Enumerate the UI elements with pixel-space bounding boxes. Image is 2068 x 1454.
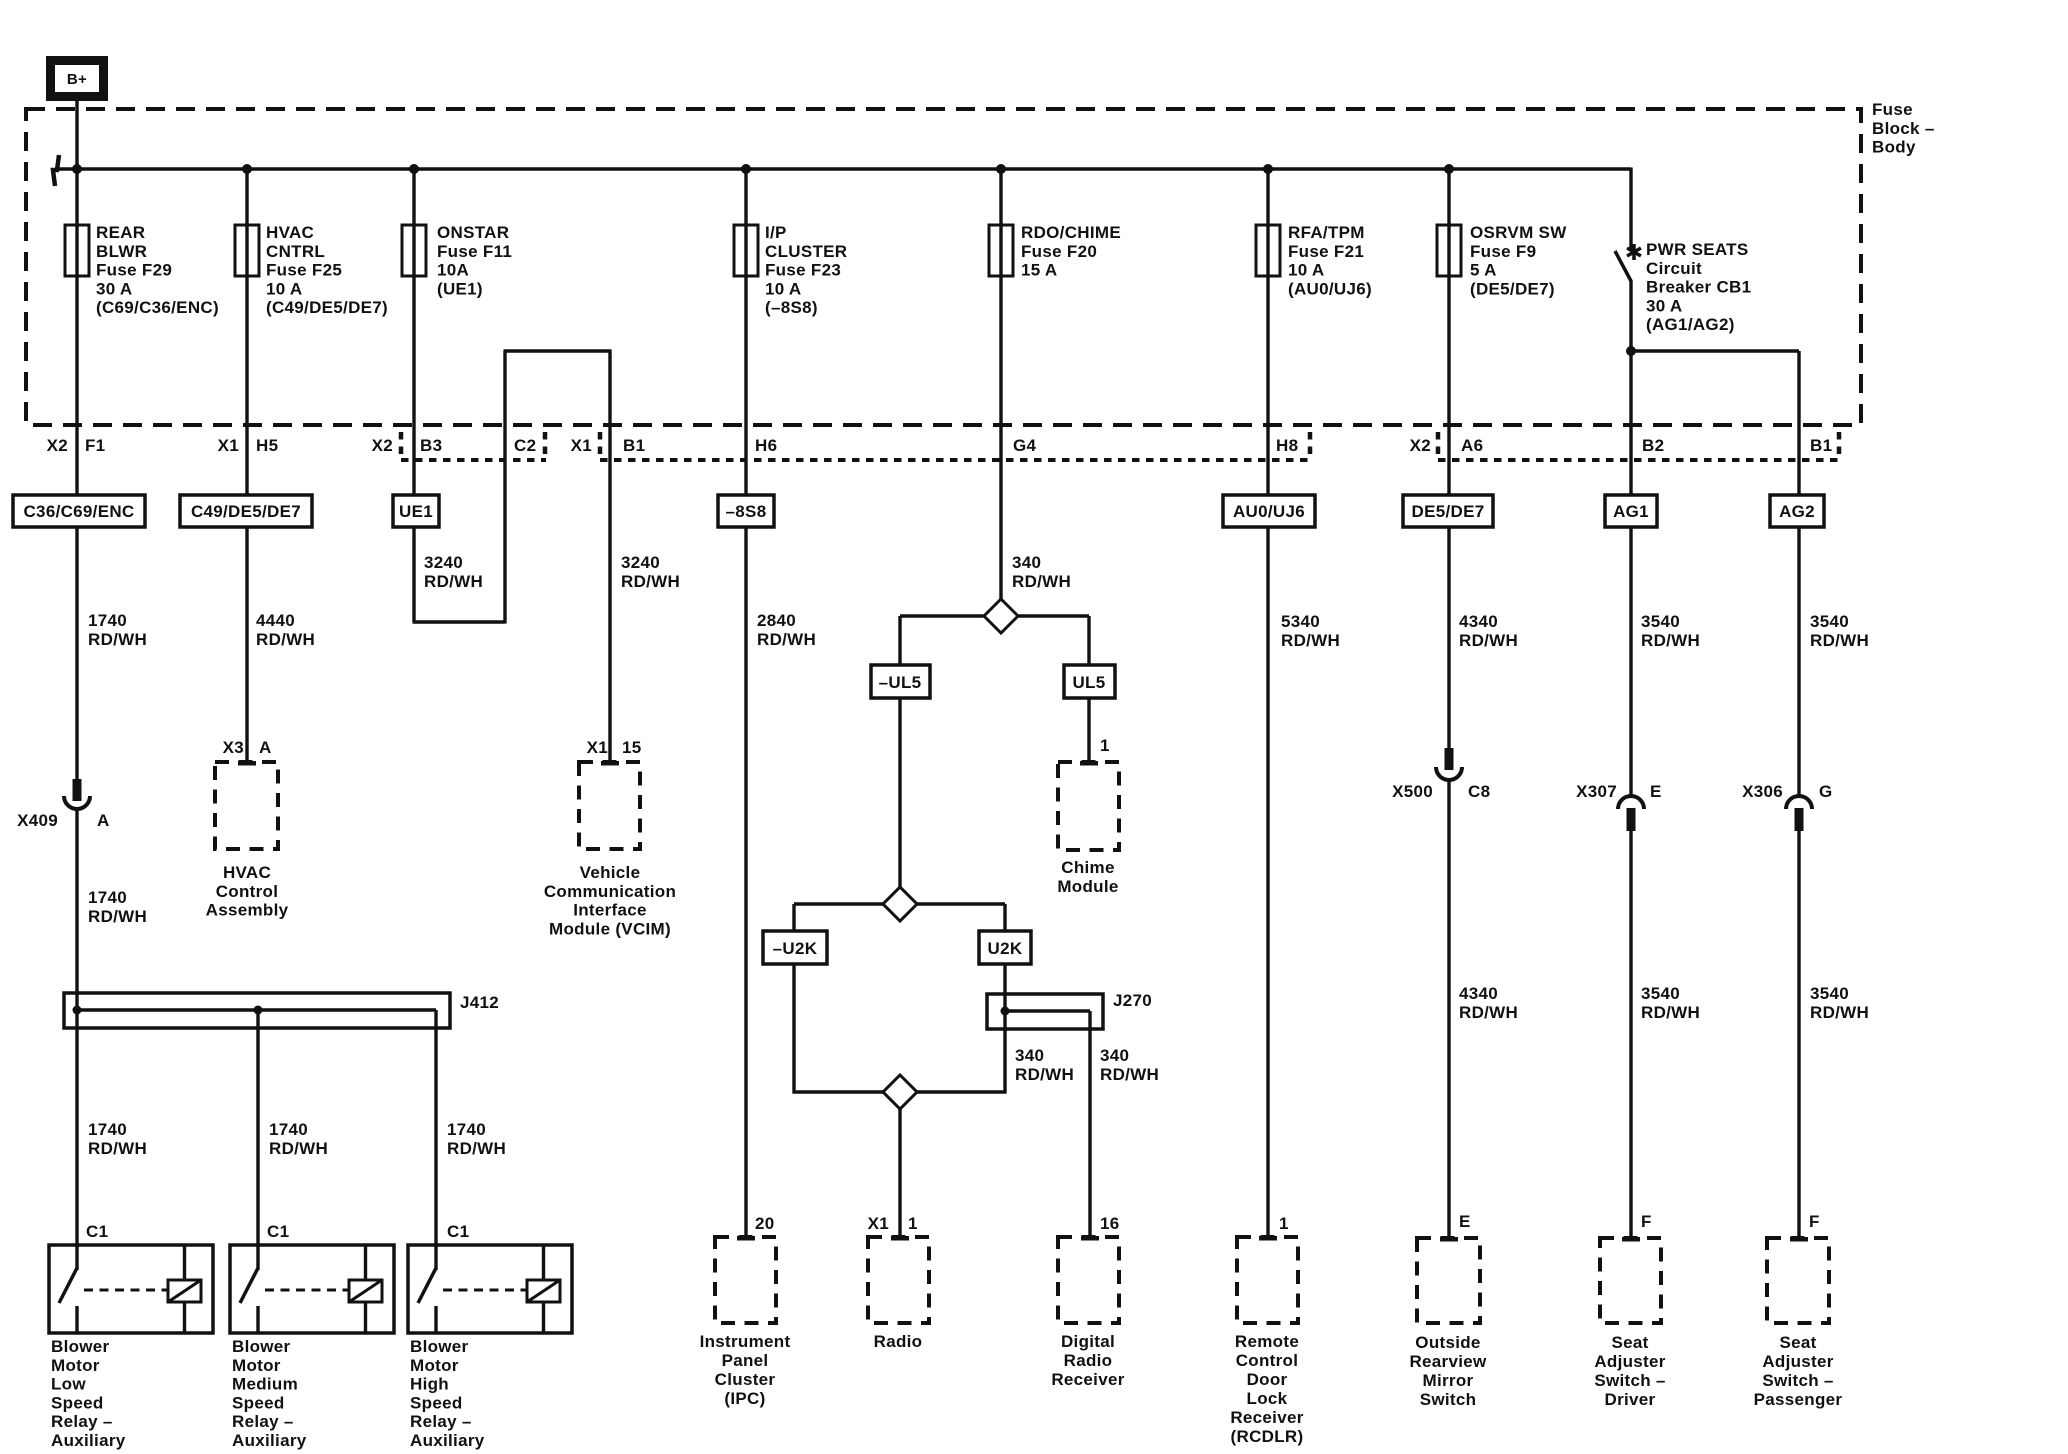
svg-text:Mirror: Mirror: [1423, 1371, 1474, 1390]
svg-text:E: E: [1459, 1212, 1471, 1231]
svg-text:C1: C1: [267, 1222, 289, 1241]
svg-text:RD/WH: RD/WH: [1100, 1065, 1159, 1084]
svg-text:10A: 10A: [437, 261, 469, 280]
module box VCIM: [579, 762, 640, 849]
svg-text:F: F: [1641, 1212, 1652, 1231]
connector box DE5/DE7: [1403, 495, 1493, 527]
svg-text:(IPC): (IPC): [724, 1389, 765, 1408]
label wire 2840 RD/WH: [757, 611, 816, 649]
label fuse F23 I/P CLUSTER: [765, 223, 847, 317]
svg-text:RD/WH: RD/WH: [447, 1139, 506, 1158]
svg-text:Medium: Medium: [232, 1375, 298, 1394]
label wire 1740 RD/WH low speed: [88, 1120, 147, 1158]
svg-text:340: 340: [1015, 1046, 1044, 1065]
connector row dotted separators: [401, 432, 1839, 456]
fuse F25 HVAC CNTRL: [235, 225, 259, 276]
wire S2 left branch: [794, 904, 883, 931]
terminal tick HVAC control: [238, 761, 256, 766]
label wire 3540 RD/WH driver lower: [1641, 984, 1700, 1022]
svg-text:Vehicle: Vehicle: [580, 863, 641, 882]
splice name box -U2K: [763, 931, 827, 964]
svg-text:4340: 4340: [1459, 984, 1498, 1003]
junction dot bus at F11 ONSTAR: [409, 164, 419, 174]
label pin 1 RCDLR: [1279, 1214, 1289, 1233]
wire bus to fuse F29 REAR BLWR: [75, 169, 78, 225]
svg-text:B3: B3: [420, 436, 442, 455]
label wire 1740 RD/WH medium speed: [269, 1120, 328, 1158]
wire 5340 RD/WH: [1266, 527, 1269, 1237]
svg-text:Assembly: Assembly: [206, 901, 289, 920]
svg-text:Radio: Radio: [1064, 1351, 1113, 1370]
wire VCIM drop: [608, 351, 611, 762]
circuit breaker CB1 switch arm: [1615, 251, 1631, 281]
svg-text:Communication: Communication: [544, 882, 676, 901]
label blower motor medium speed relay: [232, 1337, 307, 1450]
svg-text:Instrument: Instrument: [700, 1332, 791, 1351]
svg-text:Passenger: Passenger: [1754, 1390, 1843, 1409]
label X306 G: [1742, 782, 1832, 801]
label pin X1 1 radio: [868, 1214, 918, 1233]
svg-text:X3: X3: [223, 738, 244, 757]
svg-text:Door: Door: [1247, 1370, 1288, 1389]
fuse F9 OSRVM SW: [1437, 225, 1461, 276]
junction dot B+ node: [72, 164, 82, 174]
svg-text:F1: F1: [85, 436, 105, 455]
module box digital radio receiver: [1058, 1237, 1119, 1323]
svg-text:REAR: REAR: [96, 223, 145, 242]
connector box C49/DE5/DE7: [180, 495, 312, 527]
junction dot bus at F21 RFA/TPM: [1263, 164, 1273, 174]
svg-text:X307: X307: [1576, 782, 1617, 801]
wire 3540 RD/WH passenger lower: [1797, 831, 1800, 1238]
wire 3540 RD/WH driver lower: [1629, 831, 1632, 1238]
wire bus corner to CB1: [1629, 168, 1632, 251]
svg-text:Switch –: Switch –: [1594, 1371, 1665, 1390]
terminal tick VCIM: [601, 761, 619, 766]
wire fuse F11 ONSTAR down: [412, 276, 415, 495]
svg-text:(C49/DE5/DE7): (C49/DE5/DE7): [266, 298, 388, 317]
wire fuse F20 RDO/CHIME down: [999, 276, 1002, 495]
label J270: [1113, 991, 1152, 1010]
wire UE1 loop bottom: [413, 620, 506, 623]
label pin 20 IPC: [755, 1214, 775, 1233]
svg-text:10 A: 10 A: [266, 279, 302, 298]
svg-text:(RCDLR): (RCDLR): [1231, 1427, 1304, 1446]
svg-text:4340: 4340: [1459, 612, 1498, 631]
module box radio: [868, 1237, 929, 1323]
svg-text:B1: B1: [623, 436, 645, 455]
svg-text:4440: 4440: [256, 611, 295, 630]
fuse block cavity labels row: [47, 436, 1833, 455]
svg-text:Control: Control: [216, 882, 279, 901]
fuse F11 ONSTAR: [402, 225, 426, 276]
wire S1 right branch: [1018, 616, 1089, 666]
svg-text:Cluster: Cluster: [715, 1370, 776, 1389]
svg-text:RD/WH: RD/WH: [1641, 1003, 1700, 1022]
svg-text:5340: 5340: [1281, 612, 1320, 631]
svg-text:BLWR: BLWR: [96, 242, 147, 261]
wire -UL5 down to S2: [898, 698, 901, 888]
module box remote control door lock receiver: [1237, 1237, 1298, 1323]
junction dot J270: [1001, 1007, 1010, 1016]
svg-text:Seat: Seat: [1611, 1333, 1648, 1352]
terminal tick IPC: [737, 1236, 755, 1241]
label wire 5340 RD/WH: [1281, 612, 1340, 650]
svg-text:3540: 3540: [1641, 612, 1680, 631]
wire S3 to radio: [898, 1109, 901, 1237]
label pin C1 low: [86, 1222, 108, 1241]
svg-text:UL5: UL5: [1072, 673, 1105, 692]
wire 1740 RD/WH X409 to J412: [75, 809, 78, 1270]
connector box AG2: [1770, 495, 1824, 527]
wire CB1 split to AG2 branch: [1631, 351, 1799, 495]
wire jumper C2 to X1 B1: [504, 349, 612, 352]
svg-text:RD/WH: RD/WH: [1459, 1003, 1518, 1022]
relay box blower motor low speed: [49, 1245, 213, 1333]
svg-text:2840: 2840: [757, 611, 796, 630]
wire fuse F23 I/P CLUSTER down: [744, 276, 747, 495]
svg-text:RD/WH: RD/WH: [1281, 631, 1340, 650]
splice name box U2K: [979, 931, 1031, 964]
svg-text:RD/WH: RD/WH: [1641, 631, 1700, 650]
svg-text:Adjuster: Adjuster: [1594, 1352, 1665, 1371]
svg-text:A: A: [97, 811, 110, 830]
svg-text:Fuse F25: Fuse F25: [266, 261, 342, 280]
svg-text:Motor: Motor: [410, 1356, 459, 1375]
label wire 3240 RD/WH left: [424, 553, 483, 591]
svg-text:X1: X1: [218, 436, 239, 455]
circuit breaker CB1 asterisk: [1627, 244, 1641, 260]
label wire 4340 RD/WH lower: [1459, 984, 1518, 1022]
terminal tick seat passenger: [1790, 1237, 1808, 1242]
svg-text:16: 16: [1100, 1214, 1120, 1233]
svg-text:G4: G4: [1013, 436, 1037, 455]
label wire 3540 RD/WH passenger upper: [1810, 612, 1869, 650]
svg-text:3240: 3240: [424, 553, 463, 572]
svg-text:Outside: Outside: [1415, 1333, 1480, 1352]
label wire 340 RD/WH left of J270: [1015, 1046, 1074, 1084]
svg-text:A: A: [259, 738, 272, 757]
label wire 4440 RD/WH: [256, 611, 315, 649]
relay high coil: [527, 1245, 560, 1333]
svg-text:Blower: Blower: [51, 1337, 110, 1356]
svg-text:(DE5/DE7): (DE5/DE7): [1470, 279, 1555, 298]
fuse block - body dashed outline: [26, 109, 1861, 425]
svg-text:Lock: Lock: [1247, 1389, 1288, 1408]
svg-text:3540: 3540: [1810, 984, 1849, 1003]
relay low actuation dashed link: [84, 1289, 168, 1292]
wire J412 to high relay: [434, 1010, 437, 1270]
svg-text:340: 340: [1100, 1046, 1129, 1065]
svg-text:X1: X1: [868, 1214, 889, 1233]
wire fuse F29 REAR BLWR down: [75, 276, 78, 495]
label Remote Control Door Lock Receiver: [1230, 1332, 1303, 1446]
relay high switch arm: [418, 1268, 436, 1333]
svg-text:(AG1/AG2): (AG1/AG2): [1646, 315, 1735, 334]
svg-text:C8: C8: [1468, 782, 1490, 801]
svg-text:–8S8: –8S8: [726, 502, 767, 521]
main bus wire: [55, 167, 1631, 171]
svg-text:Switch: Switch: [1420, 1390, 1477, 1409]
in-line connector X307: [1618, 796, 1644, 831]
module box chime module: [1058, 762, 1119, 850]
svg-text:H6: H6: [755, 436, 777, 455]
wire S2 right branch: [917, 904, 1005, 931]
svg-text:UE1: UE1: [399, 502, 433, 521]
svg-text:RFA/TPM: RFA/TPM: [1288, 223, 1365, 242]
relay box blower motor high speed: [408, 1245, 572, 1333]
label Seat Adjuster Switch Passenger: [1754, 1333, 1843, 1409]
terminal tick seat driver: [1622, 1237, 1640, 1242]
svg-text:Auxiliary: Auxiliary: [232, 1431, 307, 1450]
svg-text:X2: X2: [47, 436, 68, 455]
in-line connector X500: [1436, 748, 1462, 780]
module box seat adjuster switch driver: [1600, 1238, 1661, 1323]
svg-text:Module (VCIM): Module (VCIM): [549, 919, 671, 938]
wire 4340 RD/WH lower: [1447, 780, 1450, 1238]
label wire 1740 RD/WH mid: [88, 888, 147, 926]
svg-text:(UE1): (UE1): [437, 279, 483, 298]
svg-text:1: 1: [1279, 1214, 1289, 1233]
label pin 1 chime: [1100, 736, 1110, 755]
label blower motor low speed relay: [51, 1337, 126, 1450]
svg-text:RD/WH: RD/WH: [256, 630, 315, 649]
relay medium actuation dashed link: [265, 1289, 349, 1292]
svg-text:X500: X500: [1392, 782, 1433, 801]
svg-text:High: High: [410, 1375, 449, 1394]
wire bus to fuse F21 RFA/TPM: [1266, 169, 1269, 225]
connector box AU0/UJ6: [1223, 495, 1315, 527]
svg-text:RD/WH: RD/WH: [88, 1139, 147, 1158]
label Vehicle Communication Interface Module: [544, 863, 676, 938]
svg-text:RD/WH: RD/WH: [269, 1139, 328, 1158]
label Chime Module: [1057, 858, 1118, 896]
svg-text:OSRVM SW: OSRVM SW: [1470, 223, 1567, 242]
svg-text:Fuse F9: Fuse F9: [1470, 242, 1536, 261]
svg-text:CLUSTER: CLUSTER: [765, 242, 847, 261]
wire bus to fuse F20 RDO/CHIME: [999, 169, 1002, 225]
label fuse F21 RFA/TPM: [1288, 223, 1372, 298]
svg-text:C2: C2: [514, 436, 536, 455]
svg-text:RD/WH: RD/WH: [88, 907, 147, 926]
svg-text:1740: 1740: [447, 1120, 486, 1139]
svg-text:RD/WH: RD/WH: [424, 572, 483, 591]
terminal tick chime module: [1080, 761, 1098, 766]
svg-text:C1: C1: [86, 1222, 108, 1241]
label wire 1740 RD/WH high speed: [447, 1120, 506, 1158]
svg-text:U2K: U2K: [988, 939, 1023, 958]
label Outside Rearview Mirror Switch: [1409, 1333, 1487, 1409]
junction dot bus at F9 OSRVM SW: [1444, 164, 1454, 174]
label HVAC Control Assembly: [206, 863, 289, 920]
svg-text:H8: H8: [1276, 436, 1298, 455]
module box outside rearview mirror switch: [1417, 1238, 1480, 1323]
junction dot bus at F23 I/P CLUSTER: [741, 164, 751, 174]
module box HVAC control assembly: [215, 762, 278, 849]
svg-text:AU0/UJ6: AU0/UJ6: [1233, 502, 1305, 521]
splice diamond S3: [883, 1075, 917, 1109]
label Fuse Block - Body: [1872, 100, 1935, 157]
svg-text:Fuse: Fuse: [1872, 100, 1913, 119]
svg-text:Fuse F11: Fuse F11: [437, 242, 512, 261]
power feed B+ box: [46, 56, 108, 101]
wire fuse F9 OSRVM SW down: [1447, 276, 1450, 495]
svg-text:RD/WH: RD/WH: [1459, 631, 1518, 650]
svg-text:C36/C69/ENC: C36/C69/ENC: [23, 502, 134, 521]
wire UE1 loop down: [412, 527, 415, 622]
svg-text:G: G: [1819, 782, 1833, 801]
splice J270 box: [987, 994, 1103, 1029]
label Instrument Panel Cluster: [700, 1332, 791, 1408]
svg-text:1: 1: [1100, 736, 1110, 755]
relay medium coil: [349, 1245, 382, 1333]
svg-text:Chime: Chime: [1061, 858, 1114, 877]
fuse F29 REAR BLWR: [65, 225, 89, 276]
label pin C1 high: [447, 1222, 469, 1241]
svg-text:Adjuster: Adjuster: [1762, 1352, 1833, 1371]
svg-text:DE5/DE7: DE5/DE7: [1412, 502, 1485, 521]
in-line connector X306: [1786, 796, 1812, 831]
wire 1740 RD/WH below C36 connector: [75, 527, 78, 781]
connector box UE1: [393, 495, 439, 527]
wire U2K down through J270: [917, 964, 1007, 1094]
junction dot bus at F20 RDO/CHIME: [996, 164, 1006, 174]
svg-text:H5: H5: [256, 436, 278, 455]
label fuse F9 OSRVM SW: [1470, 223, 1567, 298]
junction dot bus at F25 HVAC CNTRL: [242, 164, 252, 174]
svg-text:Blower: Blower: [232, 1337, 291, 1356]
wire 3540 RD/WH passenger upper: [1797, 527, 1800, 798]
splice diamond S1: [984, 599, 1018, 633]
svg-text:RD/WH: RD/WH: [1810, 1003, 1869, 1022]
svg-text:3540: 3540: [1641, 984, 1680, 1003]
label blower motor high speed relay: [410, 1337, 485, 1450]
svg-text:PWR SEATS: PWR SEATS: [1646, 240, 1749, 259]
svg-text:J270: J270: [1113, 991, 1152, 1010]
wire S1 left branch: [900, 616, 984, 666]
svg-text:Panel: Panel: [722, 1351, 769, 1370]
svg-text:Block –: Block –: [1872, 119, 1935, 138]
terminal tick digital radio receiver: [1081, 1236, 1099, 1241]
svg-text:RD/WH: RD/WH: [1015, 1065, 1074, 1084]
wire -U2K down: [793, 964, 884, 1094]
svg-text:(C69/C36/ENC): (C69/C36/ENC): [96, 298, 219, 317]
wire fuse F21 RFA/TPM down: [1266, 276, 1269, 495]
svg-text:1740: 1740: [88, 888, 127, 907]
wire 4340 RD/WH upper: [1447, 527, 1450, 749]
relay low switch arm: [59, 1268, 77, 1333]
terminal tick RCDLR: [1259, 1236, 1277, 1241]
svg-text:J412: J412: [460, 993, 499, 1012]
svg-text:–U2K: –U2K: [773, 939, 818, 958]
label circuit breaker CB1: [1646, 240, 1751, 334]
label Radio: [874, 1332, 923, 1351]
label X307 E: [1576, 782, 1662, 801]
wire J412 to medium relay: [256, 1010, 259, 1270]
wire bus to fuse F9 OSRVM SW: [1447, 169, 1450, 225]
label wire 3240 RD/WH right: [621, 553, 680, 591]
label pin F seat driver: [1641, 1212, 1652, 1231]
wire fuse F25 HVAC CNTRL down: [245, 276, 248, 495]
label X500 C8: [1392, 782, 1490, 801]
wire 4440 RD/WH: [245, 527, 248, 762]
svg-text:RD/WH: RD/WH: [88, 630, 147, 649]
label wire 3540 RD/WH driver upper: [1641, 612, 1700, 650]
svg-text:Relay –: Relay –: [232, 1412, 294, 1431]
svg-text:Seat: Seat: [1779, 1333, 1816, 1352]
wire UL5 to chime: [1087, 698, 1090, 762]
svg-text:X2: X2: [1410, 436, 1431, 455]
svg-text:30 A: 30 A: [96, 279, 132, 298]
svg-text:B2: B2: [1642, 436, 1664, 455]
splice J270 internal branch: [1005, 1011, 1090, 1237]
svg-text:RD/WH: RD/WH: [1012, 572, 1071, 591]
fuse F20 RDO/CHIME: [989, 225, 1013, 276]
label fuse F25 HVAC CNTRL: [266, 223, 388, 317]
svg-text:Relay –: Relay –: [410, 1412, 472, 1431]
svg-text:B1: B1: [1810, 436, 1832, 455]
svg-text:Receiver: Receiver: [1230, 1408, 1303, 1427]
svg-text:Speed: Speed: [410, 1393, 463, 1412]
label fuse F11 ONSTAR: [437, 223, 512, 298]
svg-text:X1: X1: [587, 738, 608, 757]
svg-text:3240: 3240: [621, 553, 660, 572]
svg-text:I/P: I/P: [765, 223, 787, 242]
splice diamond S2: [883, 887, 917, 921]
relay low coil: [168, 1245, 201, 1333]
fuse F21 RFA/TPM: [1256, 225, 1280, 276]
label pin X1 15: [587, 738, 642, 757]
svg-text:Breaker CB1: Breaker CB1: [1646, 278, 1751, 297]
svg-text:X409: X409: [17, 811, 58, 830]
svg-text:RD/WH: RD/WH: [621, 572, 680, 591]
svg-text:Low: Low: [51, 1375, 86, 1394]
module box seat adjuster switch passenger: [1767, 1238, 1829, 1323]
svg-text:Speed: Speed: [51, 1393, 104, 1412]
svg-text:Fuse F29: Fuse F29: [96, 261, 172, 280]
svg-text:–UL5: –UL5: [879, 673, 922, 692]
relay box blower motor medium speed: [230, 1245, 394, 1333]
svg-text:Digital: Digital: [1061, 1332, 1115, 1351]
svg-text:15 A: 15 A: [1021, 261, 1057, 280]
label Digital Radio Receiver: [1051, 1332, 1124, 1389]
terminal tick mirror switch: [1440, 1237, 1458, 1242]
splice name box UL5: [1064, 665, 1115, 698]
label fuse F29 REAR BLWR: [96, 223, 219, 317]
in-line connector dotted boundary segments: [401, 458, 1840, 462]
label J412: [460, 993, 499, 1012]
junction dot CB1 split: [1626, 346, 1636, 356]
wire bus to fuse F25 HVAC CNTRL: [245, 169, 248, 225]
connector box C36/C69/ENC: [13, 495, 145, 527]
svg-text:X2: X2: [372, 436, 393, 455]
svg-text:AG2: AG2: [1779, 502, 1815, 521]
in-line connector X409: [64, 779, 90, 809]
svg-text:Auxiliary: Auxiliary: [410, 1431, 485, 1450]
splice J412 box: [64, 993, 450, 1028]
svg-text:C49/DE5/DE7: C49/DE5/DE7: [191, 502, 301, 521]
svg-text:20: 20: [755, 1214, 775, 1233]
svg-text:340: 340: [1012, 553, 1041, 572]
label pin F seat passenger: [1809, 1212, 1820, 1231]
label wire 3540 RD/WH passenger lower: [1810, 984, 1869, 1022]
svg-text:Auxiliary: Auxiliary: [51, 1431, 126, 1450]
label fuse F20 RDO/CHIME: [1021, 223, 1121, 280]
svg-text:Remote: Remote: [1235, 1332, 1299, 1351]
svg-text:Circuit: Circuit: [1646, 259, 1702, 278]
svg-text:1740: 1740: [88, 611, 127, 630]
svg-text:C1: C1: [447, 1222, 469, 1241]
